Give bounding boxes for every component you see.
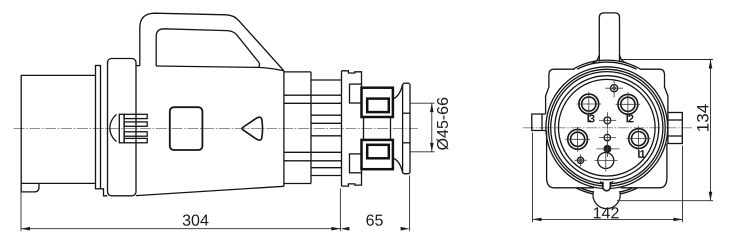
tab flare right bbox=[620, 55, 627, 63]
dia dim line bbox=[431, 103, 433, 152]
top bulge arc outer bbox=[573, 60, 641, 69]
top bulge arc inner bbox=[577, 62, 637, 69]
dim line 304 bbox=[21, 228, 340, 230]
arrow right 304 bbox=[331, 227, 340, 231]
sleeve outer left bottom bbox=[284, 183, 311, 185]
arrow top 134 bbox=[709, 60, 713, 69]
bottom boss bbox=[593, 191, 620, 209]
handle inner bbox=[156, 29, 259, 68]
small double crosshair bbox=[574, 154, 586, 166]
dim 142 extension right bbox=[682, 146, 684, 223]
clamp bar 3 bbox=[124, 132, 147, 136]
bottom jaw bbox=[350, 154, 362, 173]
flange step line top bbox=[403, 112, 410, 114]
gland ring bbox=[96, 66, 101, 189]
flange step line bottom bbox=[403, 142, 410, 144]
body left shoulder bbox=[546, 69, 575, 114]
sleeve line y103 bbox=[284, 102, 342, 104]
bottom wing arc inner right bbox=[618, 188, 633, 192]
fillet bottom bbox=[393, 158, 403, 173]
gland step bbox=[101, 189, 108, 196]
end flange bbox=[403, 83, 410, 174]
big circle crosshair bbox=[595, 150, 618, 172]
arrow left 304 bbox=[21, 227, 30, 231]
body top edge left of handle bbox=[136, 65, 140, 67]
pin L1 bbox=[629, 129, 649, 149]
dim 142 extension left bbox=[532, 133, 534, 223]
ring r56.1 bbox=[551, 72, 663, 184]
sleeve step vertical bbox=[310, 72, 312, 184]
U slot bbox=[603, 182, 610, 191]
dia dim: extension bottom bbox=[410, 151, 434, 153]
sleeve line y123 bbox=[311, 122, 342, 124]
pin L3 bbox=[579, 94, 599, 114]
sleeve line y95 bbox=[284, 94, 342, 96]
centerline horizontal bbox=[523, 127, 692, 129]
arrow right 142 bbox=[674, 218, 683, 222]
arrow right 65 bbox=[401, 227, 410, 231]
keyway diamond bbox=[612, 86, 616, 90]
top bobbin outer bbox=[362, 88, 393, 117]
svg-text:Ø45-66: Ø45-66 bbox=[435, 97, 452, 150]
bottom wing arc outer right bbox=[618, 188, 637, 194]
sleeve line y135.8 bbox=[311, 135, 342, 137]
keyway crosshair bbox=[605, 79, 623, 98]
clamp bar 4 bbox=[124, 138, 147, 142]
label plate bbox=[170, 107, 203, 150]
clamp bar 2 bbox=[124, 122, 147, 126]
pin N bbox=[568, 129, 588, 149]
dim 134 extension top bbox=[619, 59, 713, 61]
clamp bracket bbox=[119, 114, 124, 143]
ring r52 bbox=[555, 76, 659, 180]
bottom bobbin inner bbox=[367, 145, 389, 159]
dim 304/65: extension line left bbox=[20, 193, 22, 232]
top jaw bbox=[350, 84, 362, 103]
trunk left bbox=[363, 117, 365, 140]
fillet top bbox=[393, 84, 403, 99]
sleeve outer right bottom bbox=[311, 175, 342, 177]
dim 134 extension bottom bbox=[617, 200, 713, 202]
ring r48.3 bbox=[559, 79, 656, 176]
dia arrow bottom bbox=[430, 143, 434, 152]
arrow triangle bbox=[242, 117, 263, 140]
arrow bottom 134 bbox=[709, 192, 713, 201]
small circle B bbox=[604, 134, 610, 140]
body right side lower bbox=[621, 144, 667, 188]
sleeve outer right top bbox=[311, 79, 342, 81]
gland plate left edge bbox=[341, 71, 343, 186]
gland plate top castellation bbox=[342, 71, 362, 84]
latch line bottom bbox=[668, 135, 682, 137]
centerline (horizontal dash-dot) bbox=[14, 128, 418, 130]
svg-text:65: 65 bbox=[366, 213, 384, 230]
tab flare left bbox=[593, 55, 600, 63]
ring r60.9 bbox=[546, 67, 668, 189]
left tab bbox=[532, 114, 546, 131]
bottom bobbin outer bbox=[362, 140, 393, 169]
left tab face line bbox=[541, 114, 543, 131]
sleeve line y115 bbox=[311, 114, 342, 116]
flange (rear disc) bbox=[108, 59, 137, 196]
body bottom edge bbox=[136, 186, 284, 195]
keyway circle bbox=[611, 85, 618, 92]
cable end foot bbox=[21, 183, 39, 192]
pin L2 bbox=[618, 94, 638, 114]
L2 crosshair bbox=[616, 92, 641, 117]
sleeve line y161 bbox=[284, 160, 342, 162]
svg-text:142: 142 bbox=[593, 205, 620, 222]
right latch bbox=[668, 113, 682, 144]
B crosshair bbox=[599, 129, 616, 146]
top tab bbox=[599, 13, 619, 62]
U slot tick right bbox=[610, 181, 613, 184]
dim extension line right bbox=[409, 176, 411, 232]
top bobbin inner bbox=[367, 99, 389, 113]
U slot tick left bbox=[600, 181, 603, 184]
body left side lower bbox=[547, 131, 594, 188]
arrow left 65 bbox=[340, 227, 349, 231]
clamp bar 1 bbox=[124, 114, 147, 118]
cable clamp arc bbox=[110, 114, 117, 141]
sleeve line y167.7 bbox=[311, 167, 342, 169]
dim line 142 bbox=[533, 218, 683, 220]
trunk right bbox=[390, 117, 392, 140]
small double circle bottom left bbox=[577, 157, 583, 163]
PE crosshair bbox=[597, 141, 620, 157]
N crosshair bbox=[565, 127, 590, 152]
dia dim: extension top bbox=[410, 102, 434, 104]
cable end body bbox=[21, 75, 95, 183]
body top edge through handle hole bbox=[156, 66, 284, 71]
A crosshair bbox=[599, 112, 616, 128]
dim extension line middle bbox=[339, 189, 341, 232]
sleeve outer left top bbox=[284, 71, 311, 73]
L3 crosshair bbox=[577, 92, 602, 117]
body right edge bbox=[283, 71, 285, 187]
svg-text:304: 304 bbox=[182, 213, 209, 230]
svg-text:134: 134 bbox=[694, 104, 713, 132]
dia arrow top bbox=[430, 103, 434, 112]
arrow left 142 bbox=[533, 218, 542, 222]
gland plate bottom castellation bbox=[342, 173, 362, 186]
ring r58.4 bbox=[548, 69, 665, 186]
L1 crosshair bbox=[626, 126, 651, 151]
small circle A bbox=[604, 117, 611, 124]
sleeve line y152 bbox=[284, 151, 342, 153]
bottom wing arc outer left bbox=[576, 188, 595, 194]
latch line top bbox=[668, 119, 682, 121]
dim line 134 bbox=[710, 60, 712, 201]
handle outer bbox=[140, 13, 284, 71]
big bottom circle bbox=[598, 153, 614, 169]
bottom wing arc inner left bbox=[581, 188, 596, 192]
body right shoulder bbox=[640, 69, 668, 112]
PE pin filled bbox=[603, 145, 611, 153]
